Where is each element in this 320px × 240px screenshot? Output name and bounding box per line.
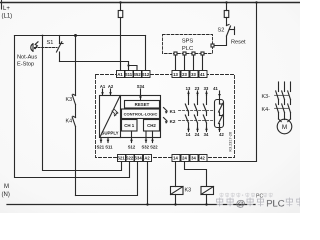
wire S1 to terminal S11 (60, 62, 129, 71)
terminal box A1 (117, 71, 208, 162)
pin arrow A2 internal (109, 89, 112, 95)
terminal box 33 (190, 71, 198, 78)
node junction K4 on rail (205, 203, 207, 205)
wire PLC input from terminal 33 (193, 56, 195, 71)
terminal box 42 (199, 155, 207, 162)
node junction S-loop / feedback chain (74, 34, 77, 37)
pin arrow 23 internal (196, 91, 199, 96)
wire coil K3 to M rail (175, 195, 177, 205)
label A1 internal (97, 84, 225, 150)
svg-text:41: 41 (213, 86, 218, 91)
mechanical link dashed S1 (35, 47, 58, 49)
terminal box 23 (181, 71, 189, 78)
contact K4 main 3-pole NO (275, 104, 291, 120)
relay K2 internal coil symbol (164, 118, 168, 124)
wire terminal 24 to coil K4 (185, 162, 207, 187)
svg-text:34: 34 (191, 155, 196, 160)
svg-text:M: M (4, 184, 9, 190)
terminal labels row top (117, 72, 205, 161)
svg-text:42: 42 (219, 132, 224, 137)
terminal box 41 (199, 71, 207, 78)
coil K3 contactor (171, 187, 184, 195)
pin arrow 34 internal (205, 128, 208, 132)
wire rail to fuse F2 (226, 3, 228, 11)
svg-text:24: 24 (182, 155, 187, 160)
terminal box 24 (181, 155, 189, 162)
svg-text:24: 24 (195, 132, 200, 137)
svg-text:CH 1: CH 1 (124, 123, 135, 128)
wire PLC input from terminal 23 (184, 56, 186, 71)
watermark main line (216, 198, 223, 207)
svg-text:33: 33 (204, 86, 209, 91)
svg-text:23: 23 (195, 86, 200, 91)
svg-text:A2: A2 (108, 84, 114, 89)
pin square PLC input 23 (183, 52, 186, 55)
contact monitor 41-42 NC internal (215, 100, 224, 128)
svg-text:S12: S12 (142, 72, 150, 77)
relay internal main box (100, 96, 161, 138)
contact S1 NC emergency stop (57, 36, 64, 62)
svg-text:S2: S2 (218, 28, 225, 34)
svg-text:K3-: K3- (262, 94, 271, 100)
control logic block (122, 109, 160, 119)
node junction K3 on rail (174, 203, 176, 205)
supply diagonal (100, 96, 120, 137)
wire rail to fuse F1 (120, 3, 122, 11)
svg-text:K3: K3 (66, 97, 73, 103)
wire feedback chain down from node (75, 36, 77, 96)
svg-text:SUPPLY: SUPPLY (101, 131, 118, 136)
terminal box S22 (126, 155, 134, 162)
reset block (125, 101, 160, 109)
terminal box S12 (142, 71, 150, 78)
svg-text:S34: S34 (134, 155, 142, 160)
svg-text:S11: S11 (125, 72, 133, 77)
svg-text:K4: K4 (66, 119, 73, 125)
pin arrow S32 internal (145, 131, 148, 143)
svg-text:S32 S22: S32 S22 (141, 145, 158, 150)
terminal box 34 (190, 155, 198, 162)
node junction top rail to F2 (225, 1, 227, 3)
svg-text:S52: S52 (133, 72, 141, 77)
pin arrow 13 internal (187, 91, 190, 96)
svg-text:A1: A1 (117, 72, 123, 77)
node junction S-loop / right wire (42, 35, 44, 37)
terminal box 13 (172, 71, 180, 78)
wire left frame tick (1, 0, 3, 9)
contact output 13-14 internal (185, 96, 188, 128)
svg-text:Reset: Reset (231, 40, 246, 46)
wire M (N) bottom return rail (7, 204, 255, 206)
svg-text:S21: S21 (117, 155, 125, 160)
svg-text:A2: A2 (144, 155, 150, 160)
safety relay module dashed outline (96, 75, 235, 158)
pin arrow 24 internal (196, 128, 199, 132)
svg-text:13: 13 (173, 72, 178, 77)
svg-text:L+: L+ (3, 6, 10, 12)
svg-text:A1: A1 (100, 84, 106, 89)
svg-text:SPS: SPS (182, 39, 194, 45)
node junction top rail to monitor contact (255, 1, 257, 3)
wire phase L1 to motor (278, 82, 280, 92)
wire node to terminal S12 (145, 36, 147, 71)
wire E-stop left wire (to S22) (15, 36, 130, 178)
svg-text:CONTROL-LOGIC: CONTROL-LOGIC (124, 112, 158, 117)
node junction top rail to F1 (119, 1, 121, 3)
pin arrow 33 internal (205, 91, 208, 96)
emergency stop actuator (mushroom) (31, 42, 38, 51)
channel 1 block (122, 120, 138, 132)
wire rail to terminal 42 (203, 3, 257, 162)
svg-text:S1: S1 (47, 40, 54, 46)
svg-text:(N): (N) (2, 192, 10, 198)
relay K1 internal coil symbol (164, 108, 168, 114)
pin arrow S11 internal (107, 138, 110, 143)
pin arrow 42 internal (218, 128, 221, 132)
wire S2 to PLC input (215, 36, 227, 46)
svg-text:RESET: RESET (135, 102, 150, 107)
wire terminal A2 to M rail (147, 162, 149, 205)
node junction A2 on rail (146, 203, 148, 205)
fuse F2 for reset circuit (224, 11, 229, 18)
node junction S11/S52 jumper (127, 64, 129, 66)
pin square PLC input 33 (192, 52, 195, 55)
pin arrow S22 internal (151, 131, 154, 143)
svg-text:S21 S11: S21 S11 (97, 145, 114, 150)
svg-text:42: 42 (200, 155, 205, 160)
wire fuse F2 to S2 (226, 18, 228, 26)
svg-text:S22: S22 (126, 155, 134, 160)
contact K3 auxiliary NO (72, 94, 75, 117)
wire coil K4 to M rail (206, 195, 208, 205)
pin arrow S34 internal (139, 89, 142, 101)
svg-text:K1: K1 (170, 109, 176, 114)
svg-text:S12: S12 (128, 145, 136, 150)
svg-text:33: 33 (191, 72, 196, 77)
wire L+ top supply rail (0, 2, 300, 4)
pin square PLC input 13 (174, 52, 177, 55)
wire phase L3 to motor (290, 82, 292, 92)
wire phase L2 to motor (284, 82, 286, 92)
svg-text:E-Stop: E-Stop (17, 62, 34, 68)
pin square PLC output reset (211, 44, 214, 47)
wire terminal 14 to coil K3 (175, 162, 177, 187)
svg-text:K4-: K4- (262, 107, 271, 113)
svg-text:K3: K3 (185, 188, 192, 194)
wire S-loop top horizontal node (15, 35, 146, 37)
terminal box S11 (125, 71, 133, 78)
contact K4 auxiliary NO (72, 116, 75, 195)
wire feedback chain to terminal S34 (76, 162, 138, 196)
supply block divider (120, 96, 122, 138)
terminal box A2 (144, 155, 152, 162)
svg-text:14: 14 (173, 155, 178, 160)
PLC box dashed SPS (163, 35, 213, 54)
svg-text:CH2: CH2 (147, 123, 156, 128)
pin arrow S21 internal (100, 138, 103, 143)
pin square PLC input 41 (201, 52, 204, 55)
svg-text:14: 14 (186, 132, 191, 137)
terminal box 14 (172, 155, 180, 162)
contact output 23-24 internal (194, 96, 197, 128)
wire PLC input from terminal 13 (175, 56, 177, 71)
contact output 33-34 internal (203, 96, 206, 128)
svg-text:M: M (282, 124, 287, 131)
pushbutton S2 reset NO (227, 25, 235, 37)
wire fuse F1 to terminal A1 (120, 18, 122, 71)
pin arrow S12 internal (130, 131, 133, 143)
coil K4 contactor (201, 187, 214, 195)
wire PLC input from terminal 41 (202, 56, 204, 71)
pin arrow 41 internal (218, 91, 221, 100)
terminal box S34 (135, 155, 143, 162)
terminal box S21 (118, 155, 126, 162)
svg-text:S34: S34 (137, 84, 145, 89)
svg-text:Not-Aus: Not-Aus (17, 55, 37, 61)
mechanical link K1 dashed (179, 110, 215, 112)
wire jumper S11-S52 (129, 66, 138, 71)
pin arrow A1 internal (101, 89, 104, 95)
wire E-stop right wire (to S21) (43, 36, 122, 171)
pin arrow 14 internal (187, 128, 190, 132)
svg-text:34: 34 (204, 132, 209, 137)
svg-text:(L1): (L1) (2, 14, 13, 20)
svg-text:PLC: PLC (182, 46, 193, 52)
supply DC arrows (112, 109, 118, 117)
svg-text:23: 23 (182, 72, 187, 77)
channel 2 block (144, 120, 160, 132)
motor M circle (277, 119, 292, 134)
svg-text:@: @ (236, 198, 246, 209)
terminal box S52 (134, 71, 142, 78)
watermark ghost line (220, 193, 224, 198)
svg-text:PLC: PLC (266, 198, 285, 209)
svg-text:13: 13 (186, 86, 191, 91)
mechanical link K2 dashed (179, 120, 215, 122)
wire converge into motor (279, 119, 291, 122)
fuse F1 for A1 supply (118, 11, 123, 18)
svg-text:41: 41 (200, 72, 205, 77)
svg-text:K2: K2 (170, 119, 176, 124)
contact K3 main 3-pole NO (275, 91, 291, 105)
svg-text:K3.2317-26: K3.2317-26 (229, 132, 233, 152)
